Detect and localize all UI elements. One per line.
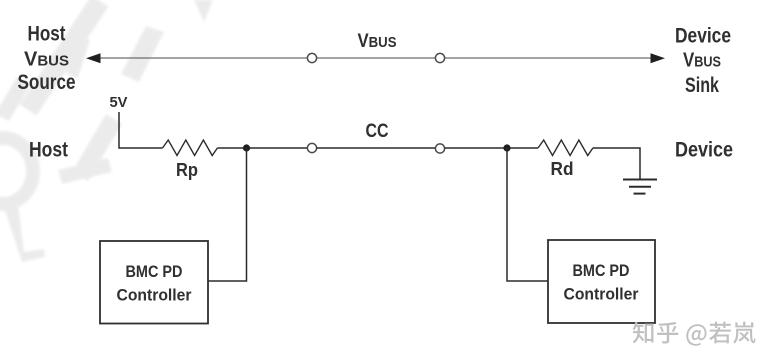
- svg-text:Host: Host: [29, 139, 68, 162]
- resistor Rd: [538, 140, 593, 156]
- connector contact CC right (circle): [435, 144, 444, 153]
- wire right junction to BMC controller: [507, 148, 548, 281]
- wire CC right segment: [445, 147, 538, 149]
- svg-text:Device: Device: [675, 139, 733, 162]
- wire left junction to BMC controller: [208, 148, 247, 281]
- wire CC left segment: [217, 147, 307, 149]
- svg-text:Host: Host: [28, 23, 66, 46]
- svg-text:Device: Device: [675, 25, 731, 48]
- svg-text:CC: CC: [366, 121, 389, 142]
- svg-text:Rp: Rp: [176, 160, 198, 180]
- connector contact CC left (circle): [307, 143, 316, 152]
- label Host VBUS Source: [18, 23, 76, 95]
- node junction right (dot): [503, 144, 510, 151]
- label BMC PD Controller U2: [564, 262, 640, 304]
- connector contact VBUS left (circle): [307, 53, 316, 62]
- wire CC middle segment: [317, 147, 436, 149]
- label BMC PD Controller U1: [117, 263, 193, 305]
- node junction left (dot): [243, 144, 250, 151]
- resistor Rp: [163, 140, 218, 156]
- BMC PD Controller U1 (left box): [100, 241, 208, 324]
- BMC PD Controller U2 (right box): [548, 240, 655, 323]
- connector contact VBUS right (circle): [435, 53, 444, 62]
- svg-text:Controller: Controller: [117, 287, 193, 305]
- label Device VBUS Sink: [675, 25, 731, 98]
- svg-text:BMC PD: BMC PD: [573, 262, 630, 280]
- wire Rd to ground: [593, 148, 640, 179]
- svg-text:Rd: Rd: [551, 159, 574, 179]
- ground: [623, 180, 657, 194]
- wire VBUS: [97, 57, 654, 59]
- watermark text "Zhihu @ruolan" (bottom right): [633, 322, 756, 346]
- svg-text:5V: 5V: [110, 94, 128, 111]
- svg-text:BMC PD: BMC PD: [126, 263, 183, 281]
- svg-text:VBUS: VBUS: [358, 31, 397, 52]
- svg-text:Controller: Controller: [564, 286, 640, 304]
- svg-text:Sink: Sink: [685, 74, 719, 97]
- svg-text:VBUS: VBUS: [24, 49, 69, 71]
- arrowhead VBUS right: [651, 53, 666, 63]
- wire 5V supply lead: [119, 112, 163, 148]
- arrowhead VBUS left: [86, 53, 101, 63]
- svg-text:VBUS: VBUS: [683, 50, 721, 72]
- svg-text:Source: Source: [18, 70, 76, 94]
